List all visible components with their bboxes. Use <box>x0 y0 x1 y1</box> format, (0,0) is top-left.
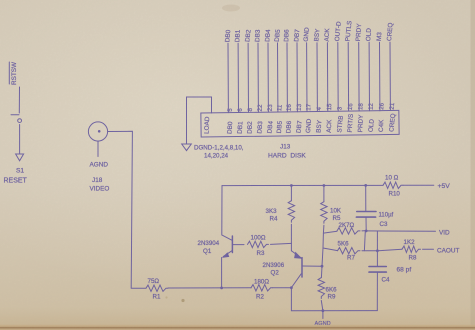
svg-text:DB3: DB3 <box>254 29 262 42</box>
svg-text:DB4: DB4 <box>264 29 272 42</box>
svg-text:RESET: RESET <box>4 178 28 185</box>
wire reset vertical upper <box>18 87 20 113</box>
svg-text:12: 12 <box>368 102 375 110</box>
svg-text:11: 11 <box>276 104 284 112</box>
svg-text:2N3906: 2N3906 <box>263 262 285 269</box>
wire J13 pin 16 (PUTLS) <box>347 42 349 111</box>
svg-text:CAOUT: CAOUT <box>437 248 459 255</box>
wire Q1 emitter down <box>221 258 223 288</box>
svg-text:18: 18 <box>357 102 365 110</box>
svg-text:VID: VID <box>439 230 450 237</box>
svg-text:R10: R10 <box>389 191 401 198</box>
svg-text:OUT-D: OUT-D <box>334 21 343 42</box>
svg-text:6K6: 6K6 <box>326 287 338 294</box>
svg-text:PRT/S: PRT/S <box>347 114 355 133</box>
wire J13 pin 11 (DB5) <box>277 43 279 112</box>
svg-text:ACK: ACK <box>324 27 332 41</box>
svg-text:RSTSW: RSTSW <box>11 61 18 85</box>
node dot R2 right junction <box>290 286 293 289</box>
svg-text:8: 8 <box>247 107 254 112</box>
wire AGND stub <box>322 311 324 319</box>
svg-text:2K7Ω: 2K7Ω <box>339 222 355 229</box>
svg-text:DB0: DB0 <box>226 121 234 134</box>
svg-text:S1: S1 <box>16 168 24 175</box>
svg-text:DB5: DB5 <box>274 29 282 43</box>
svg-text:ACK: ACK <box>326 119 333 133</box>
svg-text:DB6: DB6 <box>283 29 290 42</box>
paper bottom edge <box>0 325 475 330</box>
resistor R8 zigzag <box>402 246 421 252</box>
svg-text:DB7: DB7 <box>293 29 301 42</box>
svg-text:16: 16 <box>286 103 293 111</box>
wire reset vertical lower <box>19 125 21 155</box>
wire Q2 base diagonal <box>292 274 302 288</box>
connector J18 video jack circle <box>88 122 107 141</box>
wire J13 pin 3 (OUT-D) <box>337 43 339 112</box>
svg-text:R9: R9 <box>328 294 336 301</box>
svg-text:DB4: DB4 <box>266 120 274 134</box>
svg-text:23: 23 <box>267 104 275 112</box>
resistor R4 vertical <box>290 186 292 201</box>
node dot R5 top <box>323 184 326 187</box>
svg-text:R7: R7 <box>347 255 355 262</box>
wire J13 pin 17 (GND) <box>306 43 308 112</box>
svg-text:10 Ω: 10 Ω <box>385 175 399 182</box>
svg-text:J18: J18 <box>92 177 103 184</box>
svg-text:DB0: DB0 <box>224 29 232 42</box>
svg-text:DB2: DB2 <box>244 29 252 43</box>
paper speck 2 <box>165 296 167 298</box>
svg-text:R1: R1 <box>153 294 161 301</box>
wire R8 left <box>377 249 402 251</box>
node dot ground rail R9 <box>322 309 325 312</box>
wire J13 pin 21 (CREQ) <box>389 42 391 110</box>
off-page arrow reset <box>16 154 24 161</box>
svg-text:DGND-1,2,4,8,10,: DGND-1,2,4,8,10, <box>194 145 244 152</box>
svg-text:VIDEO: VIDEO <box>90 186 110 193</box>
wire J13 pin 16 (DB6) <box>286 43 288 112</box>
wire R8 right to CAOUT <box>423 248 434 250</box>
svg-text:2N3904: 2N3904 <box>198 240 220 247</box>
resistor R7 zigzag <box>338 248 360 254</box>
wire R7 right <box>362 250 377 252</box>
wire R3 to node <box>271 243 292 244</box>
svg-text:110µf: 110µf <box>379 213 394 219</box>
wire J13 pin 8 (DB2) <box>247 43 249 112</box>
svg-text:100Ω: 100Ω <box>251 235 266 242</box>
capacitor C3 <box>365 185 367 211</box>
svg-text:HARD DISK: HARD DISK <box>268 153 306 160</box>
wire J13 pin 23 (DB4) <box>267 43 269 112</box>
svg-text:AGND: AGND <box>90 162 109 169</box>
svg-text:CREQ: CREQ <box>386 22 394 41</box>
svg-text:6: 6 <box>237 108 244 112</box>
svg-text:OLD: OLD <box>365 28 372 42</box>
wire Q1 base stub <box>232 244 244 246</box>
wire R7 left <box>323 248 338 251</box>
ground arrow DGND <box>182 144 192 151</box>
node dot Q2 collector junction <box>321 265 324 268</box>
wire +5V rail <box>222 184 383 186</box>
svg-text:Q2: Q2 <box>271 270 280 277</box>
node dot R7 R8 C4 junction <box>376 249 379 252</box>
Q1 emitter with arrow <box>223 251 232 257</box>
wire J13 pin 5 (DB0) <box>227 43 229 112</box>
svg-text:R5: R5 <box>333 215 341 222</box>
wire J13 pin 15 (ACK) <box>326 43 328 112</box>
svg-text:DB2: DB2 <box>247 121 254 134</box>
svg-text:Q1: Q1 <box>203 248 212 255</box>
svg-text:17: 17 <box>305 103 313 111</box>
svg-text:LOAD: LOAD <box>204 116 212 134</box>
svg-text:1K2: 1K2 <box>404 239 416 246</box>
svg-text:GND: GND <box>305 118 313 133</box>
svg-text:22: 22 <box>257 104 264 112</box>
svg-text:R8: R8 <box>409 255 417 262</box>
svg-text:DB6: DB6 <box>285 120 293 133</box>
resistor R6 zigzag <box>337 228 360 234</box>
wire node A vertical <box>363 231 366 251</box>
node dot C3 top <box>364 184 367 187</box>
resistor R10 zigzag <box>383 182 403 188</box>
wire J13 pin 22 (DB3) <box>257 43 259 112</box>
svg-text:GND: GND <box>303 27 311 42</box>
wire J13 pin 13 (DB7) <box>296 43 298 112</box>
wire emitter line R1 R2 <box>131 287 146 289</box>
wire video jack shield stub <box>97 141 99 156</box>
node dot R4 top <box>290 184 293 187</box>
resistor R5 vertical <box>323 186 325 202</box>
capacitor C4 <box>376 231 378 266</box>
svg-text:75Ω: 75Ω <box>148 278 160 285</box>
resistor R3 zigzag <box>248 241 269 247</box>
wire LOAD pin to ground <box>187 97 212 144</box>
svg-text:+5V: +5V <box>438 183 451 190</box>
switch S1 pushbutton symbol <box>11 114 19 116</box>
paper right edge shading <box>471 0 475 330</box>
svg-text:OLD: OLD <box>368 118 376 132</box>
svg-text:C4K: C4K <box>378 119 385 132</box>
node dot Q1 emitter junction <box>220 287 223 290</box>
svg-text:CREQ: CREQ <box>388 113 397 132</box>
wire Q1 collector <box>222 186 232 241</box>
svg-text:5K6: 5K6 <box>338 241 350 248</box>
svg-text:3: 3 <box>336 106 343 111</box>
transistor Q2 bar <box>301 258 303 277</box>
resistor R2 zigzag <box>251 285 273 291</box>
wire video jack to amp input <box>108 131 133 288</box>
wire VID output line <box>366 230 435 232</box>
svg-text:68 pf: 68 pf <box>397 267 412 274</box>
wire R6 right to node <box>362 230 366 232</box>
connector J13 body rectangle <box>201 110 399 137</box>
svg-text:13: 13 <box>296 103 304 111</box>
wire J13 pin 4 (BSY) <box>316 43 318 112</box>
wire R2 junction to ground rail <box>291 288 377 311</box>
svg-text:16: 16 <box>347 102 355 110</box>
wire Q2 collector <box>302 265 322 267</box>
svg-text:PUTLS: PUTLS <box>344 20 353 41</box>
svg-text:180Ω: 180Ω <box>254 279 269 286</box>
svg-text:DB3: DB3 <box>256 121 264 134</box>
svg-text:C3: C3 <box>380 221 388 228</box>
svg-text:R3: R3 <box>257 250 265 257</box>
svg-text:M3: M3 <box>376 31 384 41</box>
Q2 emitter with arrow (PNP) <box>292 251 302 258</box>
svg-text:PRDY: PRDY <box>355 23 363 42</box>
svg-text:PRDY: PRDY <box>357 114 365 133</box>
svg-text:BSY: BSY <box>313 28 321 42</box>
wire J13 pin 12 (OLD) <box>368 42 370 111</box>
paper smudge top <box>222 5 240 12</box>
svg-text:5: 5 <box>227 107 234 112</box>
svg-text:R2: R2 <box>256 294 264 301</box>
transistor Q1 bar <box>231 236 233 253</box>
svg-text:DB1: DB1 <box>237 121 245 134</box>
svg-text:3K3: 3K3 <box>266 208 278 215</box>
resistor R1 zigzag <box>146 285 168 291</box>
wire R6 left <box>323 231 337 233</box>
svg-text:DB5: DB5 <box>276 120 284 133</box>
resistor R9 vertical <box>320 266 323 277</box>
svg-text:15: 15 <box>326 103 333 111</box>
svg-text:DB7: DB7 <box>295 120 303 134</box>
svg-text:C4: C4 <box>382 277 390 284</box>
wire J13 pin 18 (PRDY) <box>358 42 360 111</box>
svg-text:10K: 10K <box>330 208 342 215</box>
svg-text:4: 4 <box>316 106 323 111</box>
svg-text:14,20,24: 14,20,24 <box>204 153 229 160</box>
svg-text:R4: R4 <box>270 216 278 223</box>
svg-text:21: 21 <box>389 102 397 110</box>
svg-text:BSY: BSY <box>315 119 323 133</box>
node dot VID takeoff <box>365 230 368 233</box>
paper speck <box>181 299 184 302</box>
wire J13 pin 26 (M3) <box>379 42 381 111</box>
svg-text:STRB: STRB <box>336 115 345 133</box>
wire J13 pin 6 (DB1) <box>237 43 239 112</box>
svg-text:J13: J13 <box>280 144 291 151</box>
svg-text:26: 26 <box>378 102 386 110</box>
svg-text:DB1: DB1 <box>234 29 241 42</box>
